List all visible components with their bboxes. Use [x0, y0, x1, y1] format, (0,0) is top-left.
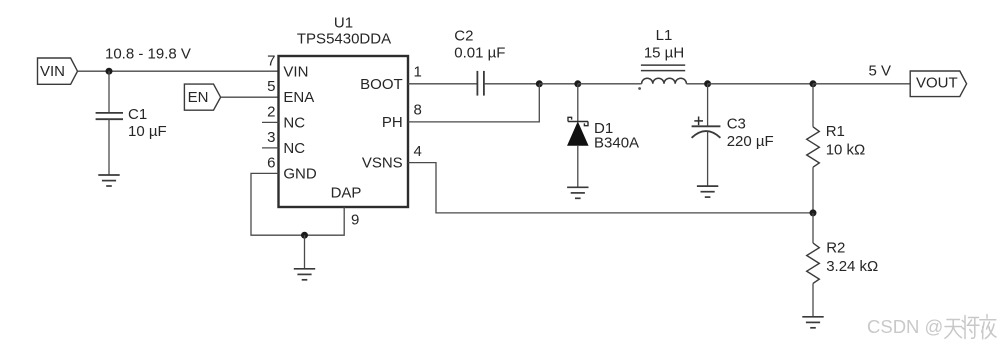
wire VIN rail [78, 70, 279, 72]
svg-text:C3: C3 [727, 116, 746, 133]
node BOOT/PH junction [536, 80, 543, 87]
svg-text:NC: NC [283, 115, 305, 132]
svg-text:3.24 kΩ: 3.24 kΩ [826, 258, 878, 275]
svg-text:VSNS: VSNS [362, 155, 403, 172]
pin 3 stub [262, 147, 279, 149]
wire C3 top [707, 84, 709, 127]
svg-text:6: 6 [267, 155, 275, 172]
wire DAP ground drop [304, 235, 306, 269]
plus sign C3 [694, 117, 703, 126]
node L1/C3 junction [704, 80, 711, 87]
node input junction [106, 68, 113, 75]
svg-text:3: 3 [267, 129, 275, 146]
watermark glyph tian [945, 320, 962, 339]
svg-text:4: 4 [414, 143, 422, 160]
inductor L1 [641, 65, 687, 84]
node D1 junction [574, 80, 581, 87]
ground C3 [697, 186, 718, 197]
svg-text:5 V: 5 V [869, 63, 892, 80]
wire D1 cathode [577, 84, 579, 122]
svg-text:ENA: ENA [283, 89, 314, 106]
svg-text:C1: C1 [128, 106, 147, 123]
svg-text:EN: EN [188, 89, 209, 106]
wire R1 bottom [812, 167, 814, 213]
svg-text:GND: GND [283, 166, 317, 183]
resistor R1 [807, 127, 820, 167]
svg-text:NC: NC [283, 140, 305, 157]
svg-text:VOUT: VOUT [916, 74, 958, 91]
svg-text:10 kΩ: 10 kΩ [826, 142, 866, 159]
watermark glyph ye [980, 315, 996, 339]
wire C1 top [108, 71, 110, 112]
svg-text:L1: L1 [656, 27, 673, 44]
port EN [184, 84, 220, 110]
svg-text:B340A: B340A [594, 135, 639, 152]
svg-text:U1: U1 [334, 14, 353, 31]
L1 phase dot [638, 87, 641, 90]
ground D1 [567, 187, 588, 198]
svg-text:CSDN @: CSDN @ [867, 316, 943, 337]
svg-text:PH: PH [382, 114, 403, 131]
svg-text:R1: R1 [826, 123, 845, 140]
wire D1 junction to L1 [578, 83, 642, 85]
capacitor C3 polarized [692, 126, 721, 138]
svg-text:5: 5 [267, 78, 275, 95]
wire VSNS feedback [408, 163, 813, 213]
svg-text:BOOT: BOOT [360, 76, 403, 93]
svg-text:8: 8 [414, 102, 422, 119]
svg-text:0.01 µF: 0.01 µF [454, 45, 505, 62]
wire C3 node to R1 node [708, 83, 813, 85]
wire R2 bottom [812, 283, 814, 316]
wire C2 to PH node [484, 83, 539, 85]
port VIN [38, 58, 78, 84]
wire PH loop [408, 84, 539, 122]
wire L1 to C3 node [686, 83, 707, 85]
ground C1 [98, 175, 119, 186]
svg-text:VIN: VIN [283, 63, 308, 80]
resistor R2 [807, 243, 820, 283]
wire GND to DAP net [251, 173, 344, 235]
wire C3 bottom [707, 132, 709, 186]
svg-text:R2: R2 [826, 240, 845, 257]
svg-text:C2: C2 [454, 28, 473, 45]
svg-text:15 µH: 15 µH [644, 45, 684, 62]
node feedback junction [810, 209, 817, 216]
svg-text:VIN: VIN [40, 63, 65, 80]
wire BOOT to C2 [408, 83, 477, 85]
watermark glyph jiang [962, 316, 979, 339]
wire R2 top [812, 213, 814, 243]
wire R1 top [812, 84, 814, 127]
svg-text:10 µF: 10 µF [128, 123, 167, 140]
svg-text:TPS5430DDA: TPS5430DDA [297, 31, 391, 48]
node VOUT/R1 junction [810, 80, 817, 87]
svg-text:2: 2 [267, 104, 275, 121]
port VOUT [910, 71, 966, 97]
svg-text:10.8 - 19.8 V: 10.8 - 19.8 V [105, 46, 191, 63]
wire to VOUT [813, 83, 910, 85]
wire C1 bottom [108, 119, 110, 175]
diode D1 schottky [568, 117, 588, 125]
svg-text:9: 9 [351, 212, 359, 229]
IC U1 TPS5430DDA box [279, 56, 409, 207]
capacitor C2 [477, 71, 484, 96]
wire EN to ENA [221, 96, 279, 98]
wire D1 anode to ground [577, 145, 579, 187]
wire PH rail to D1 [539, 83, 578, 85]
svg-text:DAP: DAP [331, 185, 362, 202]
svg-text:7: 7 [267, 53, 275, 70]
svg-text:220 µF: 220 µF [727, 133, 774, 150]
ground DAP [294, 269, 315, 280]
ground R2 [802, 317, 823, 328]
svg-text:1: 1 [414, 64, 422, 81]
capacitor C1 [96, 113, 123, 119]
node DAP junction [301, 232, 308, 239]
pin 2 stub [262, 121, 279, 123]
